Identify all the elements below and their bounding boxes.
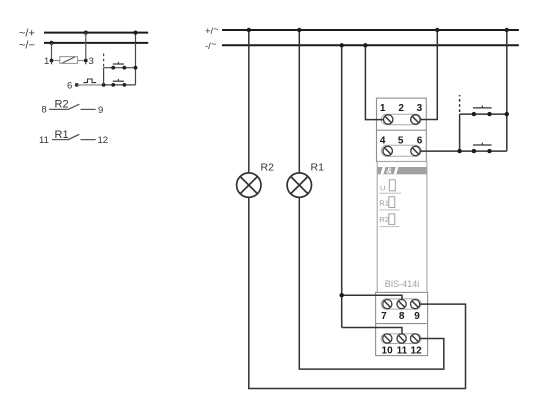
svg-text:R1: R1 <box>379 198 389 207</box>
svg-text:6: 6 <box>417 135 423 146</box>
svg-text:12: 12 <box>411 346 423 357</box>
svg-text:8: 8 <box>399 311 405 322</box>
svg-text:U: U <box>380 183 385 192</box>
svg-text:2: 2 <box>398 103 404 114</box>
svg-text:R2: R2 <box>55 99 69 111</box>
svg-text:R1: R1 <box>311 162 325 174</box>
svg-text:5: 5 <box>398 135 404 146</box>
svg-text:3: 3 <box>417 103 423 114</box>
svg-text:BIS-414i: BIS-414i <box>385 279 420 289</box>
svg-text:&: & <box>386 167 392 176</box>
svg-text:7: 7 <box>381 311 387 322</box>
svg-text:11: 11 <box>39 135 49 146</box>
svg-text:12: 12 <box>98 135 109 146</box>
svg-text:6: 6 <box>67 80 72 91</box>
svg-text:R2: R2 <box>261 162 275 174</box>
svg-text:~/−: ~/− <box>19 40 35 52</box>
svg-text:9: 9 <box>98 105 103 116</box>
svg-text:10: 10 <box>382 346 394 357</box>
svg-text:R2: R2 <box>379 215 389 224</box>
svg-text:~/+: ~/+ <box>19 27 35 39</box>
svg-text:4: 4 <box>380 135 386 146</box>
svg-text:3: 3 <box>89 56 94 67</box>
svg-text:1: 1 <box>380 103 386 114</box>
svg-text:8: 8 <box>42 105 47 116</box>
svg-text:11: 11 <box>397 346 408 357</box>
svg-text:1: 1 <box>44 56 49 67</box>
svg-text:9: 9 <box>414 311 420 322</box>
